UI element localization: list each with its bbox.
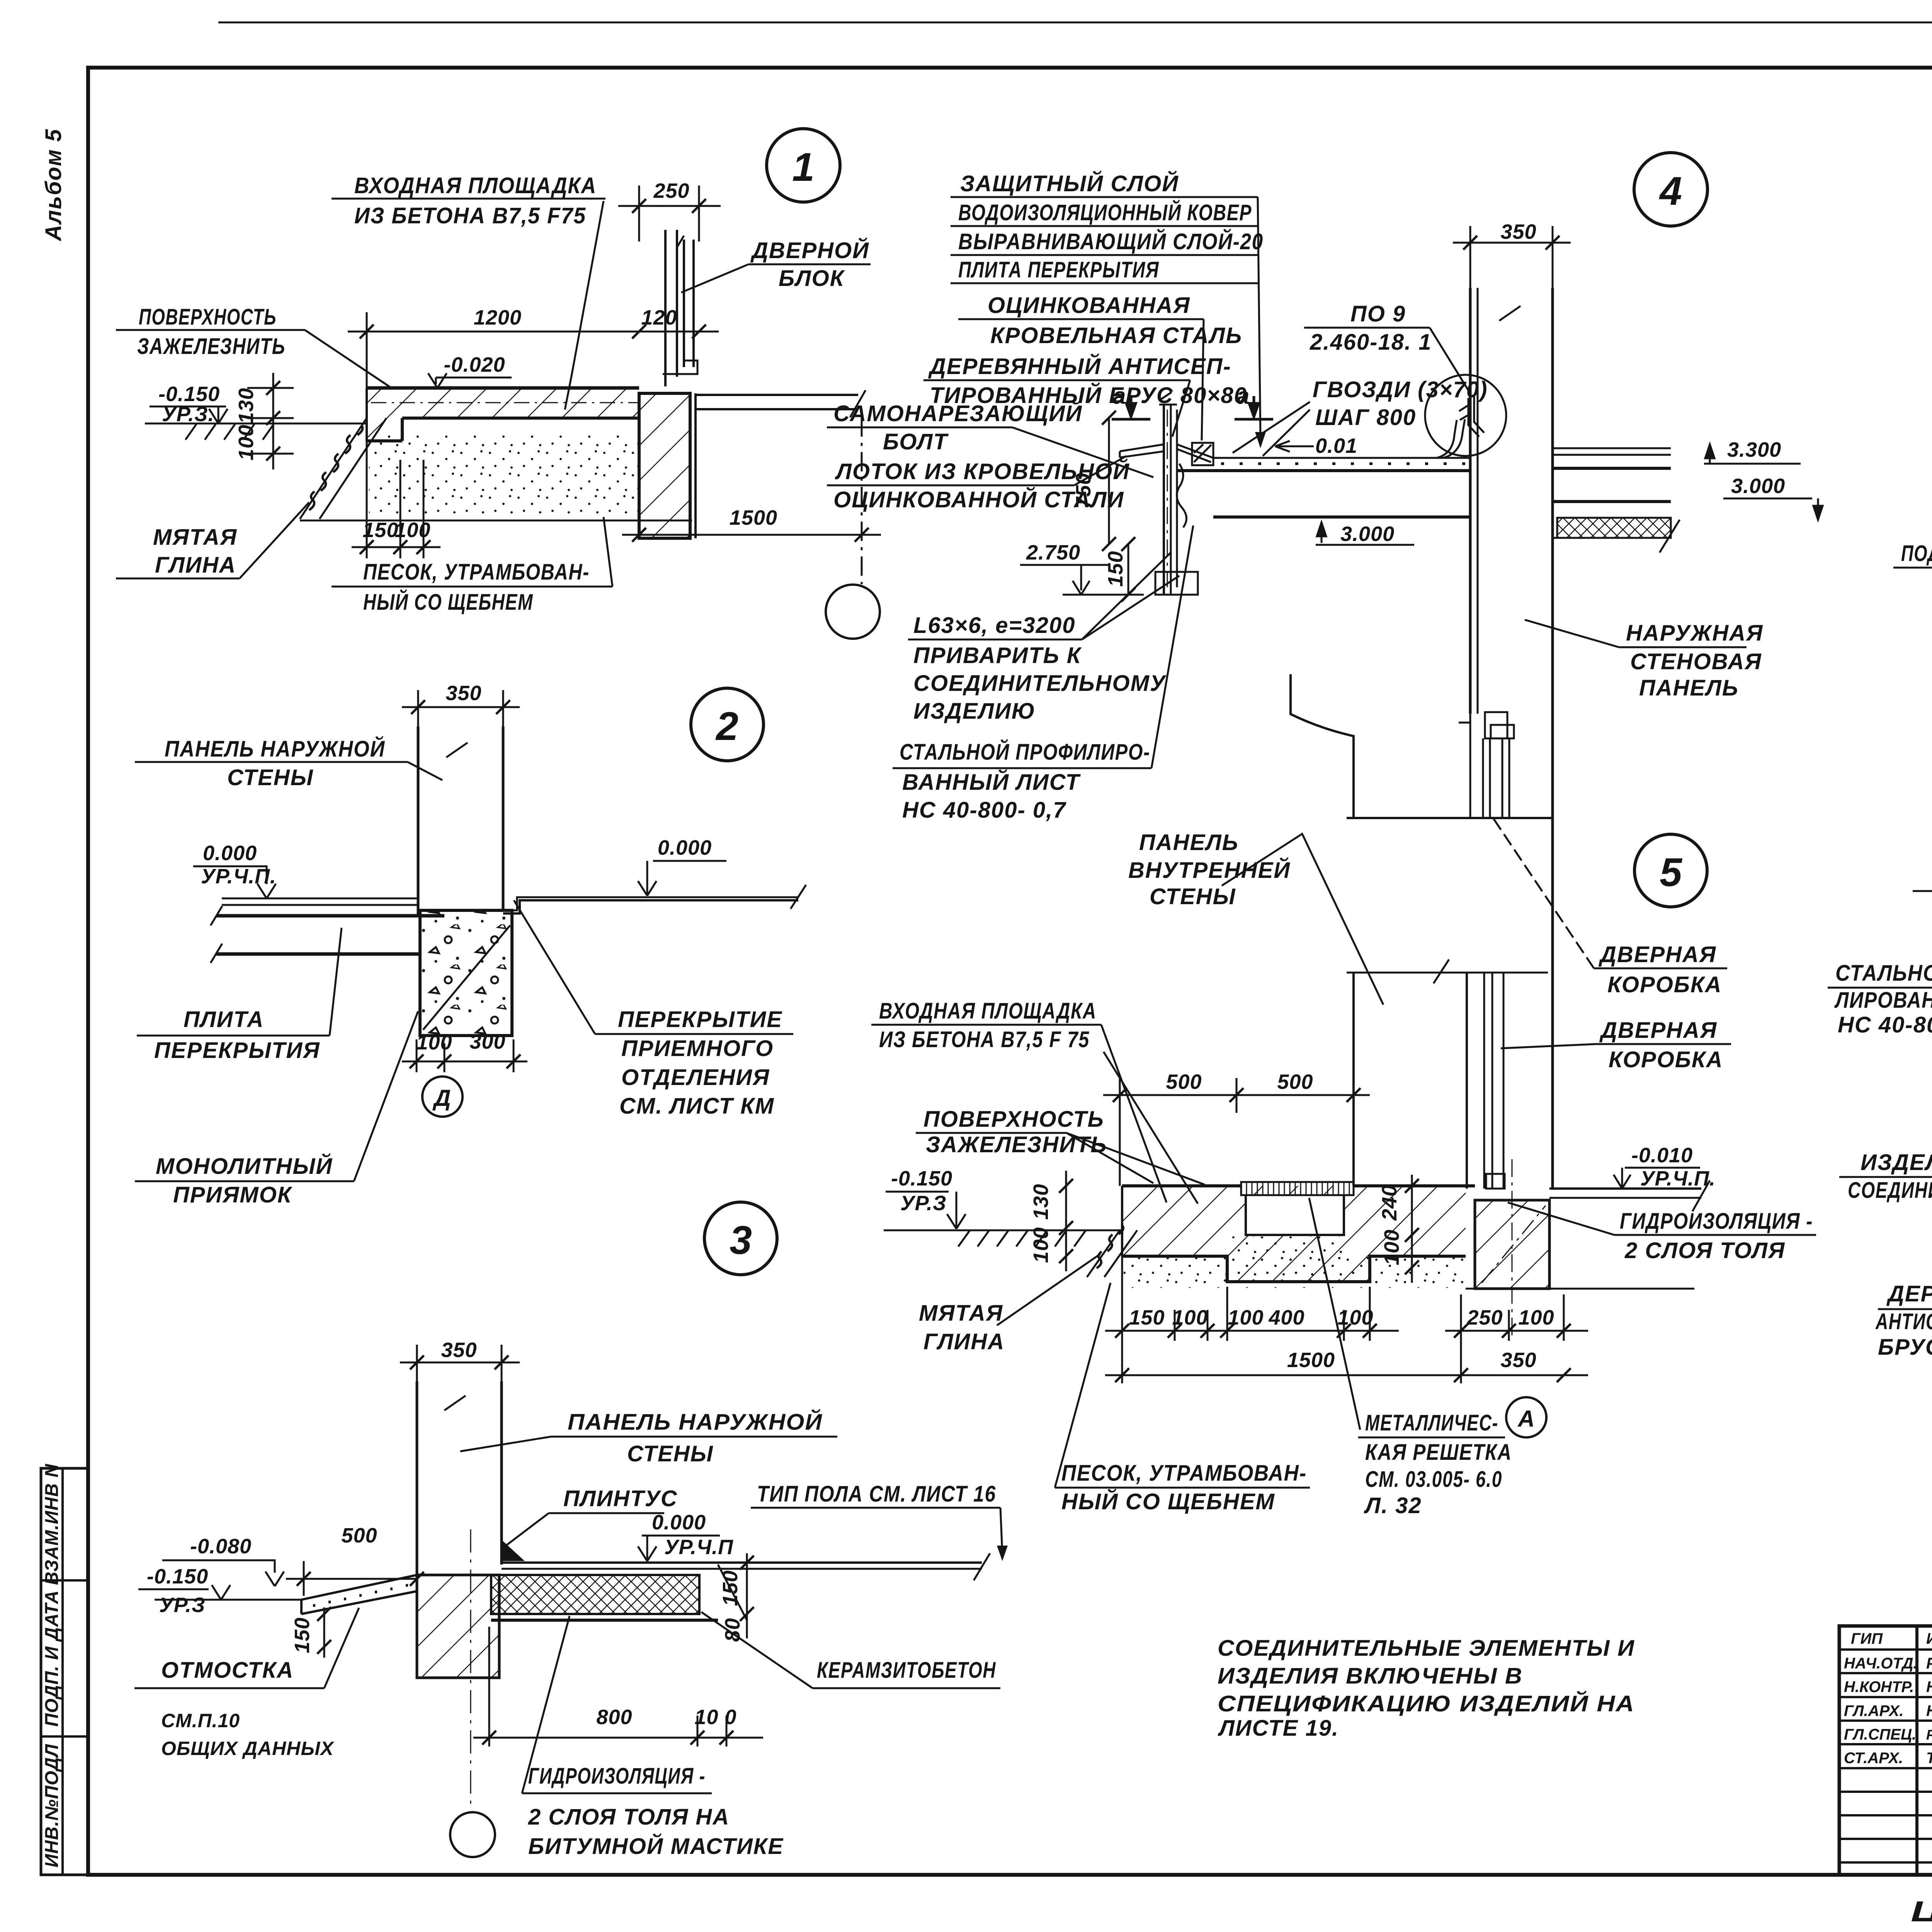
- d2 floor right with notch: [503, 900, 798, 913]
- svg-text:УР.З: УР.З: [900, 1192, 947, 1215]
- svg-text:350: 350: [441, 1338, 477, 1362]
- svg-text:0.000: 0.000: [658, 836, 712, 859]
- svg-text:КЕРАМЗИТОБЕТОН: КЕРАМЗИТОБЕТОН: [817, 1658, 996, 1683]
- d4 door head: [1347, 817, 1553, 819]
- d5 clay wedge: [1087, 1225, 1137, 1277]
- svg-text:10 0: 10 0: [694, 1706, 736, 1729]
- left column inner divider: [61, 1468, 64, 1875]
- svg-text:750: 750: [1072, 473, 1095, 509]
- svg-text:350: 350: [446, 682, 481, 705]
- svg-text:ЗАЩИТНЫЙ СЛОЙ: ЗАЩИТНЫЙ СЛОЙ: [960, 171, 1179, 196]
- d5 reference circle А: [1506, 1397, 1546, 1437]
- d4 door frame verticals: [1347, 738, 1548, 1189]
- svg-text:ПОДСТИЛАЮЩИЙ: ПОДСТИЛАЮЩИЙ: [1901, 541, 1932, 566]
- d4 door lintel blocks: [1459, 712, 1514, 818]
- svg-text:ГИП: ГИП: [1851, 1630, 1883, 1647]
- svg-text:КАЯ РЕШЕТКА: КАЯ РЕШЕТКА: [1365, 1440, 1512, 1465]
- svg-text:ПЕСОК, УТРАМБОВАН-: ПЕСОК, УТРАМБОВАН-: [363, 560, 590, 585]
- svg-text:ИНВ.№ПОДЛ: ИНВ.№ПОДЛ: [42, 1744, 62, 1867]
- svg-text:ГИДРОИЗОЛЯЦИЯ -: ГИДРОИЗОЛЯЦИЯ -: [1620, 1209, 1813, 1234]
- svg-text:СТЕНЫ: СТЕНЫ: [227, 765, 314, 790]
- left attachment column: [41, 1468, 88, 1875]
- d5 metal grate: [1241, 1182, 1354, 1195]
- svg-text:МОНОЛИТНЫЙ: МОНОЛИТНЫЙ: [156, 1153, 333, 1179]
- svg-text:-0.080: -0.080: [190, 1535, 252, 1558]
- svg-text:ПЕРЕКРЫТИЕ: ПЕРЕКРЫТИЕ: [618, 1007, 782, 1032]
- svg-text:ПРИВАРИТЬ К: ПРИВАРИТЬ К: [913, 643, 1082, 668]
- d3 reference circle (empty): [450, 1812, 495, 1857]
- d4 floor right of wall: [1553, 448, 1680, 553]
- svg-text:0.01: 0.01: [1315, 434, 1357, 457]
- svg-text:3: 3: [730, 1218, 752, 1263]
- svg-text:НОРМАНН: НОРМАНН: [1926, 1702, 1932, 1719]
- d2 monolith pit concrete: [420, 910, 512, 1036]
- svg-text:СПЕЦИФИКАЦИЮ ИЗДЕЛИЙ НА: СПЕЦИФИКАЦИЮ ИЗДЕЛИЙ НА: [1218, 1691, 1635, 1716]
- svg-text:100: 100: [1337, 1306, 1373, 1329]
- svg-text:ОТМОСТКА: ОТМОСТКА: [161, 1658, 294, 1683]
- d3 floor lines: [502, 1561, 982, 1564]
- svg-text:УР.Ч.П: УР.Ч.П: [664, 1536, 733, 1559]
- svg-text:ПАНЕЛЬ НАРУЖНОЙ: ПАНЕЛЬ НАРУЖНОЙ: [568, 1409, 823, 1435]
- svg-text:РАШЕВСКИЙ: РАШЕВСКИЙ: [1926, 1726, 1932, 1743]
- d1 sand bed: [369, 433, 638, 516]
- svg-text:ПЕРЕКРЫТИЯ: ПЕРЕКРЫТИЯ: [154, 1038, 320, 1063]
- svg-text:100: 100: [1029, 1227, 1053, 1263]
- svg-text:ТИП ПОЛА СМ. ЛИСТ 16: ТИП ПОЛА СМ. ЛИСТ 16: [757, 1481, 996, 1507]
- svg-text:1: 1: [792, 145, 815, 190]
- svg-text:ЗАЖЕЛЕЗНИТЬ: ЗАЖЕЛЕЗНИТЬ: [137, 334, 286, 359]
- svg-text:НЫЙ СО ЩЕБНЕМ: НЫЙ СО ЩЕБНЕМ: [1061, 1489, 1275, 1514]
- d3 wall panel: [417, 1381, 502, 1575]
- d2 floor left: [222, 898, 418, 900]
- d2 reference circle Д: [422, 1077, 463, 1117]
- svg-text:0.000: 0.000: [203, 842, 257, 865]
- svg-text:УР.Ч.П.: УР.Ч.П.: [201, 865, 276, 888]
- left column outer box: [41, 1468, 88, 1875]
- svg-text:НОРМАНН: НОРМАНН: [1926, 1679, 1932, 1696]
- svg-text:ВЫРАВНИВАЮЩИЙ СЛОЙ-20: ВЫРАВНИВАЮЩИЙ СЛОЙ-20: [958, 229, 1264, 254]
- svg-text:a: a: [1236, 383, 1249, 409]
- svg-text:СТЕНЫ: СТЕНЫ: [1150, 884, 1236, 909]
- svg-text:ГЛИНА: ГЛИНА: [923, 1329, 1005, 1354]
- svg-text:Д: Д: [432, 1085, 451, 1111]
- svg-text:МЕТАЛЛИЧЕС-: МЕТАЛЛИЧЕС-: [1365, 1410, 1498, 1435]
- svg-text:БИТУМНОЙ МАСТИКЕ: БИТУМНОЙ МАСТИКЕ: [528, 1833, 784, 1859]
- d1 threshold lines to right: [696, 390, 866, 417]
- svg-text:ИЗ БЕТОНА В7,5 F75: ИЗ БЕТОНА В7,5 F75: [354, 203, 586, 228]
- d5 grate recess (hollow): [1246, 1195, 1344, 1235]
- svg-text:130: 130: [1029, 1184, 1053, 1219]
- svg-text:МЯТАЯ: МЯТАЯ: [153, 525, 237, 550]
- svg-text:СМ. ЛИСТ КМ: СМ. ЛИСТ КМ: [619, 1094, 774, 1119]
- svg-text:СОЕДИНИТЕЛЬНЫЕ ЭЛЕМЕНТЫ И: СОЕДИНИТЕЛЬНЫЕ ЭЛЕМЕНТЫ И: [1218, 1636, 1635, 1661]
- svg-text:КОРОБКА: КОРОБКА: [1609, 1047, 1723, 1072]
- svg-text:ПЛИТА ПЕРЕКРЫТИЯ: ПЛИТА ПЕРЕКРЫТИЯ: [958, 257, 1159, 282]
- svg-text:100: 100: [1172, 1306, 1208, 1329]
- d5 floor right: [1549, 1187, 1701, 1190]
- svg-text:100: 100: [1518, 1306, 1554, 1329]
- svg-text:400: 400: [1268, 1306, 1304, 1329]
- svg-text:НС 40-800- 0,7: НС 40-800- 0,7: [902, 798, 1066, 823]
- outer thin top border line: [218, 22, 1932, 24]
- svg-text:СМ. 03.005- 6.0: СМ. 03.005- 6.0: [1365, 1467, 1502, 1492]
- svg-text:ШАГ 800: ШАГ 800: [1315, 405, 1416, 430]
- svg-text:НС 40-800- 0,7: НС 40-800- 0,7: [1838, 1012, 1932, 1037]
- svg-text:ГЛИНА: ГЛИНА: [155, 553, 236, 578]
- svg-text:-0.150: -0.150: [147, 1565, 208, 1588]
- svg-text:150: 150: [1104, 551, 1127, 587]
- svg-text:150: 150: [291, 1617, 314, 1653]
- svg-text:ПРИЯМОК: ПРИЯМОК: [173, 1182, 293, 1207]
- svg-text:350: 350: [1500, 1349, 1536, 1372]
- svg-text:2 СЛОЯ ТОЛЯ: 2 СЛОЯ ТОЛЯ: [1624, 1238, 1785, 1263]
- svg-text:300: 300: [469, 1030, 505, 1053]
- svg-text:100: 100: [235, 424, 258, 460]
- svg-text:БОЛТ: БОЛТ: [883, 429, 949, 454]
- d3 wall centerline: [470, 1529, 471, 1808]
- svg-text:ИЗДЕЛИЕ: ИЗДЕЛИЕ: [1861, 1150, 1932, 1175]
- d4 insulation strip crosshatched: [1557, 518, 1671, 538]
- signature table row texts: [1844, 1630, 1932, 1767]
- svg-text:150: 150: [719, 1570, 742, 1606]
- svg-text:500: 500: [1277, 1070, 1313, 1094]
- svg-text:СОЕДИНИТЕЛЬНОЕ: СОЕДИНИТЕЛЬНОЕ: [1848, 1178, 1932, 1203]
- d3 wall below floor hatched: [417, 1575, 499, 1678]
- svg-text:5: 5: [1660, 850, 1683, 895]
- svg-text:4: 4: [1659, 169, 1682, 214]
- svg-text:Л. 32: Л. 32: [1364, 1493, 1422, 1518]
- svg-text:2 СЛОЯ ТОЛЯ НА: 2 СЛОЯ ТОЛЯ НА: [528, 1804, 730, 1830]
- svg-text:ПАНЕЛЬ: ПАНЕЛЬ: [1639, 675, 1739, 701]
- svg-text:3.300: 3.300: [1727, 438, 1781, 461]
- svg-text:СТЕНОВАЯ: СТЕНОВАЯ: [1630, 649, 1762, 674]
- svg-text:ДВЕРНОЙ: ДВЕРНОЙ: [750, 238, 869, 263]
- svg-text:3.000: 3.000: [1731, 474, 1785, 498]
- svg-text:500: 500: [341, 1524, 377, 1547]
- svg-text:СТАЛЬНОЙ ПРОФИЛИРО-: СТАЛЬНОЙ ПРОФИЛИРО-: [900, 739, 1150, 765]
- d1 reference circle (empty): [826, 585, 880, 639]
- svg-text:ВЗАМ.ИНВ N: ВЗАМ.ИНВ N: [42, 1464, 62, 1585]
- svg-text:1500: 1500: [1287, 1349, 1335, 1372]
- svg-text:УР.З: УР.З: [159, 1594, 206, 1617]
- svg-text:120: 120: [641, 306, 677, 329]
- svg-text:ПОВЕРХНОСТЬ: ПОВЕРХНОСТЬ: [139, 304, 277, 330]
- svg-text:ДЕРЕВЯННЫЙ: ДЕРЕВЯННЫЙ: [1886, 1281, 1932, 1306]
- svg-text:ПО 9: ПО 9: [1350, 301, 1406, 327]
- d1 ground line: [145, 423, 367, 425]
- d1 wall block hatched: [639, 393, 690, 538]
- svg-text:150: 150: [1129, 1306, 1165, 1329]
- svg-text:СТАЛЬНОЙ ПРОФИ-: СТАЛЬНОЙ ПРОФИ-: [1835, 960, 1932, 986]
- d5 foundation block: [1475, 1200, 1549, 1289]
- svg-text:СТ.АРХ.: СТ.АРХ.: [1844, 1750, 1903, 1767]
- detail 3 circle number: [704, 1202, 777, 1275]
- d5 ground line + hatch: [884, 1230, 1122, 1231]
- svg-text:-0.150: -0.150: [891, 1167, 952, 1190]
- svg-text:ИВАНОВА: ИВАНОВА: [1926, 1630, 1932, 1647]
- svg-text:Н.КОНТР.: Н.КОНТР.: [1844, 1679, 1914, 1696]
- svg-text:a: a: [1113, 383, 1126, 409]
- svg-text:АНТИСЕПТИРОВАННЫЙ: АНТИСЕПТИРОВАННЫЙ: [1875, 1309, 1932, 1334]
- d3 skirting: [502, 1540, 525, 1561]
- d5 sand bed dotted: [1124, 1257, 1466, 1288]
- svg-text:КОРОБКА: КОРОБКА: [1607, 972, 1722, 997]
- svg-text:350: 350: [1500, 220, 1536, 243]
- svg-text:ВХОДНАЯ ПЛОЩАДКА: ВХОДНАЯ ПЛОЩАДКА: [354, 173, 597, 198]
- svg-text:ГИДРОИЗОЛЯЦИЯ -: ГИДРОИЗОЛЯЦИЯ -: [528, 1764, 706, 1789]
- svg-text:ПЛИНТУС: ПЛИНТУС: [563, 1486, 678, 1511]
- d2 floor slab: [211, 906, 444, 963]
- svg-text:БЛОК: БЛОК: [779, 266, 845, 291]
- svg-text:-0.020: -0.020: [444, 353, 505, 376]
- svg-text:ПОДП. И ДАТА: ПОДП. И ДАТА: [42, 1590, 62, 1727]
- svg-text:ДВЕРНАЯ: ДВЕРНАЯ: [1598, 942, 1716, 967]
- svg-text:ИЗ БЕТОНА В7,5 F 75: ИЗ БЕТОНА В7,5 F 75: [879, 1027, 1090, 1052]
- svg-text:ИЗДЕЛИЮ: ИЗДЕЛИЮ: [913, 699, 1036, 724]
- d1 leader from label to slab: [565, 201, 604, 410]
- d3 ground line: [155, 1599, 301, 1601]
- svg-text:СМ.П.10: СМ.П.10: [161, 1710, 240, 1731]
- svg-text:ВНУТРЕННЕЙ: ВНУТРЕННЕЙ: [1128, 857, 1291, 883]
- d5 entrance slab hatched body: [1122, 1186, 1466, 1282]
- svg-text:-0.150: -0.150: [158, 383, 220, 406]
- svg-text:ГЛ.АРХ.: ГЛ.АРХ.: [1844, 1702, 1903, 1719]
- svg-text:ПРИЕМНОГО: ПРИЕМНОГО: [621, 1036, 774, 1061]
- svg-text:ВАННЫЙ ЛИСТ: ВАННЫЙ ЛИСТ: [902, 769, 1081, 795]
- title block: signature table: [1839, 1626, 1932, 1875]
- svg-text:ДВЕРНАЯ: ДВЕРНАЯ: [1599, 1018, 1717, 1043]
- svg-text:Ц00059-04: Ц00059-04: [1911, 1895, 1932, 1927]
- svg-text:240: 240: [1378, 1184, 1401, 1221]
- d2 wall panel: [418, 726, 503, 916]
- svg-text:150: 150: [362, 519, 398, 542]
- left column divider 2: [41, 1735, 88, 1738]
- svg-text:НЫЙ СО ЩЕБНЕМ: НЫЙ СО ЩЕБНЕМ: [363, 589, 533, 615]
- svg-text:НАРУЖНАЯ: НАРУЖНАЯ: [1626, 621, 1763, 646]
- svg-text:ПЕСОК, УТРАМБОВАН-: ПЕСОК, УТРАМБОВАН-: [1061, 1461, 1307, 1486]
- svg-text:ОТДЕЛЕНИЯ: ОТДЕЛЕНИЯ: [621, 1065, 770, 1090]
- svg-text:ИЗДЕЛИЯ ВКЛЮЧЕНЫ В: ИЗДЕЛИЯ ВКЛЮЧЕНЫ В: [1218, 1663, 1523, 1689]
- d4 parapet gutter assembly: [1120, 392, 1213, 595]
- d1 clay wedge: [300, 418, 386, 519]
- svg-text:ЗАЖЕЛЕЗНИТЬ: ЗАЖЕЛЕЗНИТЬ: [926, 1132, 1107, 1157]
- d4 wood rail detail circle: [1425, 375, 1506, 456]
- svg-text:800: 800: [596, 1706, 632, 1729]
- svg-text:250: 250: [1466, 1306, 1503, 1329]
- svg-text:ЛИСТЕ 19.: ЛИСТЕ 19.: [1218, 1716, 1339, 1741]
- detail 4 circle number: [1634, 153, 1708, 226]
- svg-text:1200: 1200: [474, 306, 522, 329]
- left column divider 1: [41, 1579, 88, 1582]
- svg-text:500: 500: [1166, 1070, 1202, 1094]
- svg-text:А: А: [1517, 1406, 1534, 1432]
- svg-text:ГВОЗДИ (3×70): ГВОЗДИ (3×70): [1313, 377, 1488, 402]
- d4 inner wall panel curve: [1291, 674, 1354, 818]
- svg-text:НАЧ.ОТД.: НАЧ.ОТД.: [1844, 1655, 1918, 1672]
- svg-text:МЯТАЯ: МЯТАЯ: [919, 1301, 1003, 1326]
- d3 pavement slope: [301, 1575, 417, 1614]
- svg-text:0.000: 0.000: [652, 1511, 706, 1534]
- svg-text:100: 100: [416, 1031, 452, 1054]
- svg-text:L63×6, e=3200: L63×6, e=3200: [913, 613, 1075, 638]
- svg-text:ОБЩИХ ДАННЫХ: ОБЩИХ ДАННЫХ: [161, 1738, 334, 1759]
- svg-text:САМОНАРЕЗАЮЩИЙ: САМОНАРЕЗАЮЩИЙ: [833, 401, 1083, 426]
- d1 entrance slab hatched: [367, 388, 639, 441]
- svg-text:ГЛ.СПЕЦ.: ГЛ.СПЕЦ.: [1844, 1726, 1916, 1743]
- svg-text:ПОВЕРХНОСТЬ: ПОВЕРХНОСТЬ: [923, 1107, 1104, 1132]
- d1 door block: [663, 230, 697, 386]
- svg-text:РЫБКИНА: РЫБКИНА: [1926, 1655, 1932, 1672]
- svg-text:2.460-18. 1: 2.460-18. 1: [1310, 330, 1432, 355]
- detail 2 circle number: [691, 688, 764, 761]
- svg-text:УР.Ч.П.: УР.Ч.П.: [1640, 1167, 1716, 1190]
- svg-text:3.000: 3.000: [1340, 522, 1395, 546]
- d4 roof membrane and slab: [1176, 419, 1470, 517]
- svg-text:2: 2: [715, 704, 738, 749]
- svg-text:250: 250: [653, 179, 689, 202]
- svg-text:БРУС 80×80: БРУС 80×80: [1878, 1335, 1932, 1360]
- svg-text:ЛИРОВАННЫЙ ЛИСТ: ЛИРОВАННЫЙ ЛИСТ: [1834, 987, 1932, 1013]
- svg-text:СТЕНЫ: СТЕНЫ: [627, 1441, 714, 1466]
- svg-text:Альбом 5: Альбом 5: [41, 128, 66, 241]
- svg-text:ТУСОВА: ТУСОВА: [1926, 1750, 1932, 1767]
- d4 outer wall panel: [1470, 288, 1553, 1189]
- svg-text:2.750: 2.750: [1026, 541, 1080, 564]
- detail 1 circle number: [767, 129, 840, 202]
- svg-text:КРОВЕЛЬНАЯ СТАЛЬ: КРОВЕЛЬНАЯ СТАЛЬ: [990, 323, 1242, 348]
- svg-text:ПЛИТА: ПЛИТА: [184, 1007, 264, 1032]
- svg-text:ВХОДНАЯ ПЛОЩАДКА: ВХОДНАЯ ПЛОЩАДКА: [879, 998, 1097, 1024]
- d5 bottom ground line: [1466, 1288, 1694, 1290]
- svg-text:ПАНЕЛЬ: ПАНЕЛЬ: [1139, 830, 1239, 855]
- svg-text:ПАНЕЛЬ НАРУЖНОЙ: ПАНЕЛЬ НАРУЖНОЙ: [165, 736, 385, 762]
- svg-text:1500: 1500: [730, 506, 777, 529]
- svg-text:ДЕРЕВЯННЫЙ АНТИСЕП-: ДЕРЕВЯННЫЙ АНТИСЕП-: [928, 354, 1231, 379]
- svg-text:СОЕДИНИТЕЛЬНОМУ: СОЕДИНИТЕЛЬНОМУ: [913, 671, 1167, 696]
- detail 5 circle number: [1634, 834, 1707, 907]
- d3 expanded-clay concrete layer: [491, 1575, 699, 1614]
- svg-text:-0.010: -0.010: [1631, 1144, 1693, 1167]
- svg-text:ОЦИНКОВАННАЯ: ОЦИНКОВАННАЯ: [988, 293, 1190, 318]
- svg-text:ВОДОИЗОЛЯЦИОННЫЙ КОВЕР: ВОДОИЗОЛЯЦИОННЫЙ КОВЕР: [958, 200, 1252, 225]
